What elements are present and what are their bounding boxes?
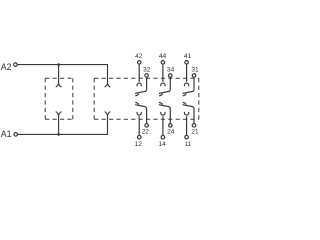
svg-text:12: 12 <box>135 141 143 148</box>
svg-text:22: 22 <box>142 129 150 136</box>
svg-text:21: 21 <box>191 129 199 136</box>
svg-text:11: 11 <box>185 141 192 148</box>
svg-text:A1: A1 <box>1 129 12 139</box>
svg-text:14: 14 <box>159 141 167 148</box>
svg-text:32: 32 <box>143 67 151 74</box>
svg-text:34: 34 <box>167 67 175 74</box>
svg-text:31: 31 <box>191 67 199 74</box>
svg-text:24: 24 <box>167 129 175 136</box>
svg-text:42: 42 <box>135 53 143 60</box>
svg-text:A2: A2 <box>1 62 12 72</box>
svg-text:44: 44 <box>159 53 167 60</box>
svg-text:41: 41 <box>184 53 192 60</box>
